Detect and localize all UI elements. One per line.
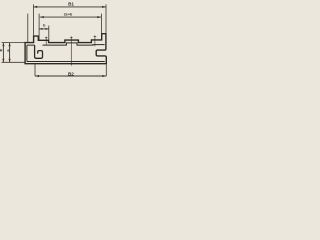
background	[0, 0, 111, 85]
dimension B2 line	[35, 75, 106, 77]
extension line B2 right	[105, 65, 107, 77]
extension line 2e+b left	[38, 14, 40, 41]
dimension H arrows	[2, 43, 4, 63]
extension line top surface to left dims	[2, 42, 26, 44]
extension line B1 left	[33, 4, 35, 42]
extension line inner left wall reference	[27, 14, 29, 43]
dimension 2e+b arrows	[40, 16, 102, 18]
svg-text:B2: B2	[68, 72, 74, 77]
dimension B2 arrows	[35, 75, 106, 77]
extension line bottom to left dims	[2, 61, 26, 63]
profile inner top line	[27, 43, 105, 45]
left rolled lip	[35, 45, 43, 58]
dimension h vertical line	[9, 43, 11, 63]
dimension 2e+b line	[40, 16, 102, 18]
centerline slot 3	[94, 35, 97, 46]
dimension B1 line	[33, 6, 106, 8]
svg-text:H: H	[0, 49, 3, 53]
profile outline outer	[25, 34, 106, 64]
dimension h arrows	[9, 43, 11, 63]
centerline slot 1	[45, 37, 48, 45]
dimension b arrows	[39, 28, 49, 30]
extension line b right	[48, 26, 50, 41]
centerline slot 2 (long)	[70, 36, 73, 65]
extension line B2 left	[34, 64, 36, 76]
svg-text:2e+b: 2e+b	[64, 12, 73, 16]
extension line 2e+b right	[100, 14, 102, 40]
profile inner left wall	[26, 45, 28, 61]
svg-text:B1: B1	[68, 1, 74, 6]
dimension H vertical line	[2, 43, 4, 63]
extension line B1 right	[105, 4, 107, 33]
dimension b line	[39, 28, 49, 30]
profile inner bottom line	[27, 61, 105, 63]
dimension B1 arrows	[33, 6, 106, 8]
